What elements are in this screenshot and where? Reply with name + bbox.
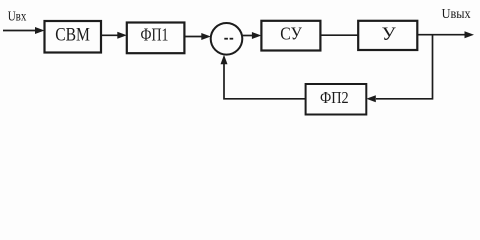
summing junction — [211, 23, 243, 55]
wire output takeoff vertical — [376, 35, 433, 99]
svg-text:Uвых: Uвых — [442, 6, 471, 21]
wire FP1 to summing junction — [184, 36, 202, 38]
svg-text:ФП1: ФП1 — [141, 24, 169, 44]
block FP2 — [306, 84, 367, 115]
arrowhead into FP2 — [366, 95, 376, 102]
wire SU to U — [320, 34, 358, 36]
arrowhead feedback up into summing junction — [221, 55, 228, 65]
wire output — [417, 34, 466, 36]
arrowhead into SU — [252, 32, 262, 39]
arrowhead output — [465, 31, 475, 38]
node Uvyx output label — [442, 6, 471, 21]
block U (amplifier) — [358, 21, 417, 50]
wire summing junction to SU — [242, 35, 253, 37]
svg-text:У: У — [382, 24, 397, 45]
arrowhead input — [35, 27, 45, 34]
wire CBM to FP1 — [101, 34, 118, 36]
block FP1 — [127, 23, 185, 54]
block CBM — [45, 21, 102, 53]
block SU — [261, 21, 320, 51]
arrowhead into summing junction — [201, 33, 211, 40]
svg-text:ФП2: ФП2 — [320, 88, 349, 107]
svg-text:СУ: СУ — [280, 24, 302, 44]
wire FP2 to summing junction — [224, 63, 306, 99]
svg-text:Uвх: Uвх — [8, 8, 27, 23]
svg-text:СВМ: СВМ — [55, 25, 90, 45]
wire input — [3, 30, 36, 32]
arrowhead into FP1 — [117, 32, 127, 39]
node Uvx input label — [8, 8, 27, 23]
